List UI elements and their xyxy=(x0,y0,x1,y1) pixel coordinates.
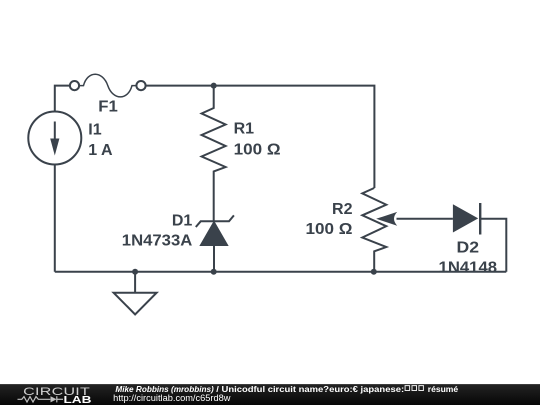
node: junction dot at R1 top xyxy=(211,83,217,89)
svg-text:R2: R2 xyxy=(332,201,353,218)
potentiometer R2 xyxy=(362,188,453,272)
svg-text:1N4733A: 1N4733A xyxy=(122,233,193,250)
svg-text:LAB: LAB xyxy=(64,394,92,405)
footer bar xyxy=(0,384,540,405)
svg-text:D2: D2 xyxy=(457,239,480,256)
wire: bottom rail xyxy=(55,271,507,273)
wire: D2 cathode to right edge, down to bottom rail xyxy=(480,219,506,272)
svg-text:R1: R1 xyxy=(234,121,255,138)
svg-text:1N4148: 1N4148 xyxy=(439,260,498,277)
svg-text:/ Unicodful circuit name?euro:: / Unicodful circuit name?euro:€ japanese… xyxy=(216,385,404,394)
wire: current source bottom to bottom rail xyxy=(54,165,56,272)
logo squiggle resistor xyxy=(18,397,51,402)
resistor R1 xyxy=(202,86,226,222)
svg-text:1 A: 1 A xyxy=(88,142,113,159)
svg-text:F1: F1 xyxy=(98,99,118,116)
footer line 1: tofu boxes for CJK glyphs xyxy=(405,386,410,391)
fuse F1 xyxy=(70,74,146,97)
svg-text:D1: D1 xyxy=(172,212,193,229)
wire: top-left corner (current source top to fuse left terminal) xyxy=(55,86,70,112)
svg-text:100 Ω: 100 Ω xyxy=(234,141,281,158)
node: junction dot at R2 bottom xyxy=(371,269,377,275)
svg-text:I1: I1 xyxy=(88,121,101,138)
svg-text:100 Ω: 100 Ω xyxy=(306,221,353,238)
diode D2 xyxy=(453,203,480,235)
node: junction dot at D1 bottom xyxy=(211,269,217,275)
ground xyxy=(114,272,157,315)
current source I1 xyxy=(28,112,81,165)
zener diode D1 xyxy=(196,215,234,271)
wire: top rail from fuse to top-right corner, down to R2 xyxy=(146,86,375,188)
svg-text:http://circuitlab.com/c65rd8w: http://circuitlab.com/c65rd8w xyxy=(113,393,231,403)
svg-text:résumé: résumé xyxy=(428,385,459,394)
logo diode xyxy=(51,396,57,402)
node: junction dot at ground xyxy=(132,269,138,275)
